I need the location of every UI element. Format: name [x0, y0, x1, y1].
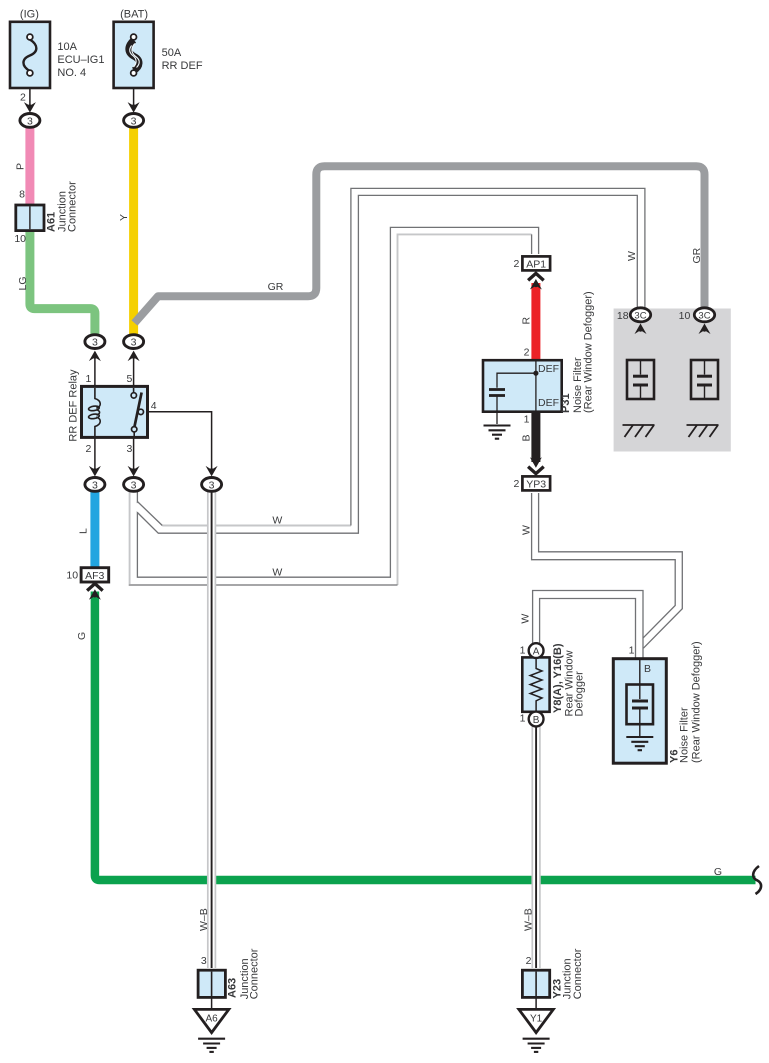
- svg-text:8: 8: [19, 188, 25, 200]
- wire oval to relay pin5: [133, 352, 135, 386]
- chevron and arrow above YP3: [528, 467, 544, 474]
- wire W relay pin3 to AP1 (white underlay): [134, 231, 536, 581]
- connector AP1: [522, 256, 550, 270]
- svg-text:(Rear Window Defogger): (Rear Window Defogger): [691, 641, 703, 763]
- svg-text:10: 10: [66, 570, 78, 582]
- svg-text:A: A: [533, 646, 540, 657]
- svg-text:Noise Filter: Noise Filter: [679, 707, 691, 763]
- svg-text:2: 2: [513, 478, 519, 490]
- svg-text:1: 1: [520, 645, 526, 657]
- svg-text:3C: 3C: [634, 310, 646, 321]
- wire Y (yellow) from BAT fuse oval to relay pin5 oval: [129, 126, 138, 336]
- arrow below oval pin1: [89, 351, 101, 362]
- svg-text:AP1: AP1: [526, 258, 546, 270]
- chassis ground 18: [623, 425, 655, 437]
- svg-text:LG: LG: [17, 276, 29, 290]
- svg-text:B: B: [533, 715, 540, 726]
- capacitor unit 18: [627, 360, 654, 399]
- ground triangle Y1: [519, 1009, 553, 1032]
- svg-text:Connector: Connector: [572, 948, 584, 999]
- svg-text:3: 3: [201, 955, 207, 967]
- wire capacitor 10 to chassis ground: [704, 399, 706, 424]
- svg-text:P: P: [15, 163, 27, 170]
- oval 3 above relay pin5: [124, 335, 144, 349]
- junction connector Y23: [522, 970, 549, 997]
- wire R (red) from AP1 chevron to P31: [531, 283, 540, 361]
- wire W-B defogger B to Y23: [532, 726, 540, 968]
- svg-text:DEF: DEF: [538, 397, 559, 409]
- svg-text:50A: 50A: [162, 47, 182, 59]
- svg-text:Y: Y: [118, 214, 130, 221]
- junction connector A63: [198, 970, 225, 997]
- wire W relay pin3 to 3C pin18 (edges): [137, 188, 645, 533]
- ground below A6: [198, 1039, 225, 1052]
- arrow below BAT fuse: [128, 102, 140, 113]
- wire W-B relay pin4 to A63: [208, 491, 216, 968]
- junction connector A61: [16, 205, 44, 231]
- wire W defogger A to Y6 pin1 (edges): [533, 591, 643, 661]
- svg-text:RR DEF Relay: RR DEF Relay: [67, 369, 79, 442]
- wire relay pin4 right and down to oval: [148, 412, 212, 470]
- wire capacitor 18 to chassis ground: [640, 399, 642, 424]
- arrow below oval pin5: [128, 351, 140, 362]
- oval 3 above relay pin1: [85, 335, 105, 349]
- svg-text:B: B: [644, 663, 651, 675]
- wire W relay pin3 to 3C pin18 (white underlay): [135, 192, 641, 529]
- wire A63 to ground triangle: [211, 997, 213, 1009]
- svg-text:W–B: W–B: [523, 908, 535, 931]
- arrow above oval pin2: [89, 466, 101, 477]
- chassis ground 10: [687, 425, 719, 437]
- wire GR (gray) from yellow junction to noise filter 3C pin 10: [135, 166, 705, 323]
- svg-text:10: 10: [14, 233, 26, 245]
- fuse 50A RR DEF (BAT): [114, 22, 154, 88]
- svg-text:Defogger: Defogger: [574, 671, 586, 717]
- svg-text:W–B: W–B: [198, 908, 210, 931]
- wire BAT fuse to oval: [133, 88, 135, 106]
- svg-text:(IG): (IG): [20, 9, 39, 21]
- ground of Y6: [626, 737, 653, 750]
- svg-text:YP3: YP3: [526, 478, 546, 490]
- gray panel (noise filter condensers): [614, 309, 731, 452]
- wire Y23 to ground triangle: [535, 997, 537, 1009]
- svg-text:1: 1: [629, 644, 635, 656]
- svg-text:NO. 4: NO. 4: [57, 67, 86, 79]
- wire W relay pin3 to AP1 (edges): [129, 227, 539, 585]
- arrow above oval pin4: [206, 466, 218, 477]
- svg-text:4: 4: [151, 400, 157, 412]
- fuse 10A ECU-IG1 NO.4 (IG): [10, 22, 50, 88]
- oval 3C pin18: [630, 308, 650, 322]
- wire break symbol at right edge: [753, 866, 761, 894]
- wire W from YP3 to defogger junction (white underlay): [535, 493, 679, 644]
- svg-text:GR: GR: [268, 281, 284, 293]
- svg-text:W: W: [626, 251, 638, 261]
- svg-text:3C: 3C: [698, 310, 710, 321]
- svg-text:AF3: AF3: [85, 570, 104, 582]
- arrow below IG fuse: [24, 102, 36, 113]
- relay RR DEF: [82, 386, 148, 437]
- svg-text:W: W: [272, 515, 282, 527]
- svg-text:(Rear Window Defogger): (Rear Window Defogger): [583, 291, 595, 413]
- oval 3 below BAT fuse: [124, 114, 144, 128]
- connector AF3: [81, 568, 109, 582]
- svg-text:A6: A6: [205, 1014, 218, 1025]
- svg-text:10: 10: [679, 310, 691, 322]
- svg-text:2: 2: [85, 443, 91, 455]
- svg-text:W: W: [520, 614, 532, 624]
- noise filter Y6: [613, 659, 666, 764]
- svg-text:R: R: [521, 317, 533, 325]
- wire P (pink) from IG fuse oval to A61: [25, 126, 34, 205]
- svg-text:Connector: Connector: [249, 948, 261, 999]
- svg-text:18: 18: [617, 310, 629, 322]
- svg-text:GR: GR: [691, 247, 703, 263]
- svg-text:10A: 10A: [57, 41, 77, 53]
- arrow into 3C pin18: [635, 324, 647, 335]
- chevron and arrow below AF3: [87, 584, 103, 591]
- svg-text:A63: A63: [227, 978, 239, 998]
- rear window defogger Y8(A) Y16(B): [522, 643, 549, 726]
- svg-text:2: 2: [20, 92, 26, 104]
- wire G (green) from AF3 to right edge break: [95, 592, 756, 881]
- wire 3C pin10 oval to capacitor: [704, 330, 706, 360]
- wire W from YP3 to defogger junction (edges): [532, 493, 683, 648]
- svg-text:(BAT): (BAT): [120, 9, 148, 21]
- svg-text:ECU–IG1: ECU–IG1: [57, 54, 104, 66]
- noise filter P31: [483, 360, 562, 424]
- wire L (blue) from relay pin2 oval to AF3: [90, 490, 99, 569]
- wire LG (light green) from A61 to relay pin1 oval: [30, 230, 95, 336]
- wire relay pin2 to oval: [94, 438, 96, 470]
- connector YP3: [522, 476, 550, 490]
- oval 3 below IG fuse: [20, 114, 40, 128]
- capacitor unit 10: [691, 360, 718, 399]
- svg-text:L: L: [78, 528, 90, 534]
- svg-text:W: W: [521, 525, 533, 535]
- ground of P31: [484, 426, 511, 439]
- ground triangle A6: [194, 1009, 228, 1032]
- svg-text:1: 1: [85, 373, 91, 385]
- wire relay pin3 to oval: [133, 438, 135, 470]
- svg-text:DEF: DEF: [538, 363, 559, 375]
- wire 3C pin18 oval to capacitor: [640, 330, 642, 360]
- svg-text:W: W: [272, 567, 282, 579]
- wire W defogger A to Y6 pin1 (white underlay): [536, 595, 639, 661]
- svg-text:1: 1: [524, 414, 530, 426]
- svg-text:5: 5: [126, 373, 132, 385]
- wire oval to relay pin1: [94, 352, 96, 386]
- svg-text:G: G: [76, 632, 88, 640]
- wire B (black) from P31 to YP3 chevron: [531, 411, 540, 462]
- oval 3 below relay pin2: [85, 478, 105, 492]
- wire IG fuse to oval: [29, 88, 31, 106]
- svg-text:Connector: Connector: [66, 181, 78, 232]
- svg-text:B: B: [521, 434, 533, 441]
- arrow above oval pin3: [128, 466, 140, 477]
- svg-text:P31: P31: [560, 393, 572, 413]
- svg-text:Y8(A), Y16(B): Y8(A), Y16(B): [552, 643, 564, 713]
- oval 3 below relay pin4: [202, 478, 222, 492]
- svg-text:1: 1: [520, 713, 526, 725]
- chevron and arrow below AP1: [528, 273, 544, 280]
- oval 3C pin10: [694, 308, 714, 322]
- svg-text:3: 3: [126, 443, 132, 455]
- arrow into 3C pin10: [699, 324, 711, 335]
- svg-text:G: G: [714, 866, 722, 878]
- svg-text:2: 2: [513, 258, 519, 270]
- svg-text:2: 2: [526, 955, 532, 967]
- svg-text:RR DEF: RR DEF: [162, 60, 203, 72]
- oval 3 below relay pin3: [124, 478, 144, 492]
- ground below Y1: [523, 1039, 550, 1052]
- svg-text:2: 2: [524, 347, 530, 359]
- svg-text:Y1: Y1: [530, 1014, 543, 1025]
